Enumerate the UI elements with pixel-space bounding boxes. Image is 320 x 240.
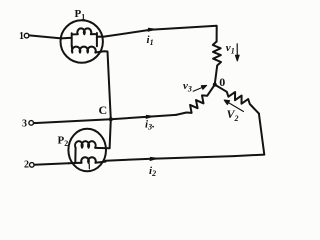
wire phase 1 (P1 to corner)	[104, 26, 217, 42]
wire P2 voltage coil to node C	[96, 119, 111, 148]
terminal 1	[24, 33, 29, 38]
current coil of P2	[69, 157, 106, 163]
svg-text:P1: P1	[75, 8, 86, 22]
wattmeter P1	[60, 20, 102, 62]
svg-text:3: 3	[22, 118, 27, 129]
terminal 2	[30, 163, 35, 168]
wire phase 2 (terminal 2 to P2)	[34, 163, 68, 164]
svg-text:i2: i2	[149, 165, 156, 178]
svg-text:v1: v1	[226, 42, 235, 56]
wire right side down	[234, 114, 264, 157]
svg-text:v3: v3	[183, 80, 192, 94]
voltage arrow v1	[236, 44, 240, 61]
current coil of P1	[61, 28, 104, 46]
svg-text:P2: P2	[58, 135, 69, 149]
wire P1 voltage coil to node C	[95, 51, 111, 119]
svg-text:V2: V2	[227, 107, 239, 123]
node C junction dot	[109, 117, 113, 121]
current arrow i2	[150, 157, 158, 160]
svg-text:i3.: i3.	[145, 118, 155, 131]
voltage arrow v2	[224, 100, 243, 111]
wire phase 1 (terminal 1 to wattmeter P1)	[29, 35, 61, 38]
svg-text:C: C	[99, 103, 108, 117]
P2 coil center tick	[88, 164, 90, 169]
wire phase 2 bottom (to P2)	[106, 156, 235, 161]
current arrow i3	[146, 115, 154, 118]
svg-text:i1: i1	[147, 34, 154, 47]
svg-text:2: 2	[24, 159, 29, 170]
current arrow i1	[148, 28, 156, 31]
voltage arrow v3	[193, 85, 206, 91]
wattmeter P2	[68, 129, 106, 171]
resistor V2 (right branch of star)	[215, 85, 259, 114]
svg-text:1: 1	[19, 31, 24, 42]
terminal 3	[29, 121, 34, 126]
voltage coil of P2	[75, 141, 96, 163]
resistor V3 (left branch of star)	[176, 85, 215, 115]
node O junction dot	[213, 83, 217, 87]
svg-text:0: 0	[219, 75, 225, 89]
voltage coil of P1	[72, 46, 96, 52]
resistor V1	[213, 42, 221, 85]
wire phase 3	[34, 115, 176, 123]
